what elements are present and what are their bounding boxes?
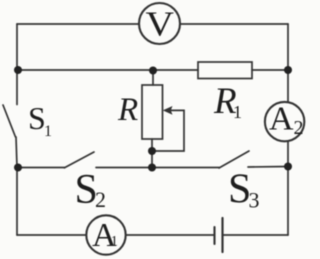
node: rheostat top junction	[149, 67, 157, 75]
svg-text:R: R	[117, 92, 138, 128]
wire battery to bottom-right corner	[223, 234, 289, 236]
resistor R1	[198, 62, 252, 79]
wire second row to R1	[153, 69, 198, 71]
wire left side lower (S1 to bottom corner)	[16, 137, 17, 235]
ammeter A1 circle	[86, 215, 125, 254]
rheostat R body	[142, 85, 163, 139]
node: left third-row junction	[14, 164, 22, 172]
wire S2 contact to rheostat node	[96, 167, 152, 169]
svg-text:1: 1	[44, 123, 52, 140]
node: wiper junction	[148, 147, 156, 155]
rheostat wiper arrow	[153, 110, 184, 151]
node: right third-row junction	[284, 163, 292, 171]
wire R1 to right node	[252, 69, 288, 71]
wire bottom-left to ammeter A1	[17, 234, 86, 236]
svg-text:2: 2	[294, 117, 304, 139]
wire A1 to battery	[126, 234, 214, 236]
switch S3 blade	[219, 151, 249, 168]
node: right second-row junction	[284, 66, 292, 74]
svg-text:2: 2	[95, 187, 106, 212]
node: rheostat bottom junction	[148, 164, 156, 172]
wire left side upper (top corner down to S1)	[16, 24, 18, 105]
wire third row left (node to S2 pivot)	[18, 167, 65, 169]
wire S3 contact to right node	[248, 166, 288, 169]
svg-text:1: 1	[233, 102, 242, 122]
svg-text:1: 1	[111, 234, 119, 250]
wire right side top (corner down through node to A2)	[287, 24, 289, 102]
switch S1	[3, 105, 16, 137]
wire voltmeter to top-right corner	[180, 23, 288, 25]
ammeter A2 circle	[265, 102, 304, 141]
node: left second-row junction	[14, 66, 22, 74]
wire second row left (node to rheostat node)	[18, 69, 153, 71]
wire rheostat node to S3 pivot	[152, 167, 219, 169]
wire rheostat top lead	[152, 70, 154, 85]
svg-text:V: V	[146, 4, 175, 43]
wire top-left to voltmeter	[17, 23, 139, 25]
svg-text:A: A	[269, 101, 294, 138]
battery negative plate (short)	[213, 227, 215, 244]
wire rheostat bottom lead	[151, 139, 153, 168]
switch S2 blade	[65, 152, 95, 168]
svg-text:3: 3	[249, 188, 260, 213]
battery positive plate (long)	[221, 218, 223, 252]
wire right side below A2	[287, 141, 289, 235]
voltmeter V circle	[139, 3, 180, 44]
